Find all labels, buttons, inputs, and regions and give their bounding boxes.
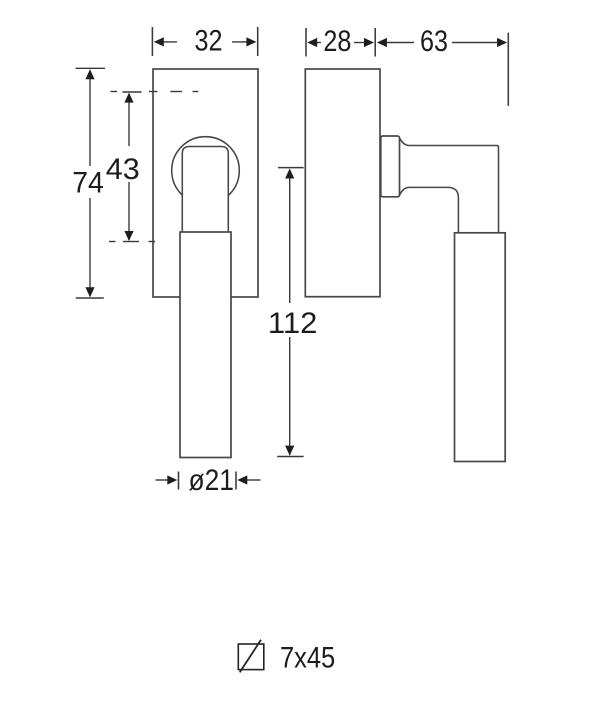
side view plate — [305, 69, 380, 297]
svg-text:112: 112 — [268, 307, 318, 340]
dim phi21 — [179, 472, 237, 490]
neck lower outline — [400, 187, 459, 232]
front view faceplate — [153, 69, 258, 297]
dashed centerline bottom — [109, 241, 155, 243]
svg-text:74: 74 — [72, 167, 104, 200]
svg-text:28: 28 — [323, 25, 351, 58]
dim 63 — [507, 33, 509, 106]
handle grip (front) — [180, 232, 231, 458]
dim 112 arrows — [285, 169, 294, 179]
side collar — [381, 136, 400, 197]
dim 74 arrows — [85, 69, 94, 79]
svg-text:32: 32 — [195, 25, 223, 58]
dim 28 — [306, 28, 375, 57]
spindle icon square — [238, 644, 263, 670]
spindle icon diagonal — [240, 640, 261, 673]
dim 32 — [152, 27, 257, 56]
dim 28 arrows — [307, 38, 317, 47]
rosette circle — [172, 137, 240, 205]
dim 43 arrows — [124, 93, 133, 103]
dim 63 arrows — [377, 38, 387, 47]
dim 112 — [277, 168, 303, 457]
dashed centerline top — [111, 91, 199, 93]
neck upper outline — [400, 138, 499, 233]
svg-text:ø21: ø21 — [188, 464, 234, 497]
svg-text:7x45: 7x45 — [280, 642, 335, 675]
dim ø21 arrows — [167, 475, 177, 484]
dim 74 — [76, 68, 105, 298]
dim 43 — [122, 92, 141, 242]
handle neck (front) — [182, 147, 228, 233]
handle grip (side) — [455, 233, 506, 462]
dim 32 arrows — [154, 37, 164, 46]
svg-text:63: 63 — [420, 25, 448, 58]
svg-text:43: 43 — [106, 153, 140, 186]
